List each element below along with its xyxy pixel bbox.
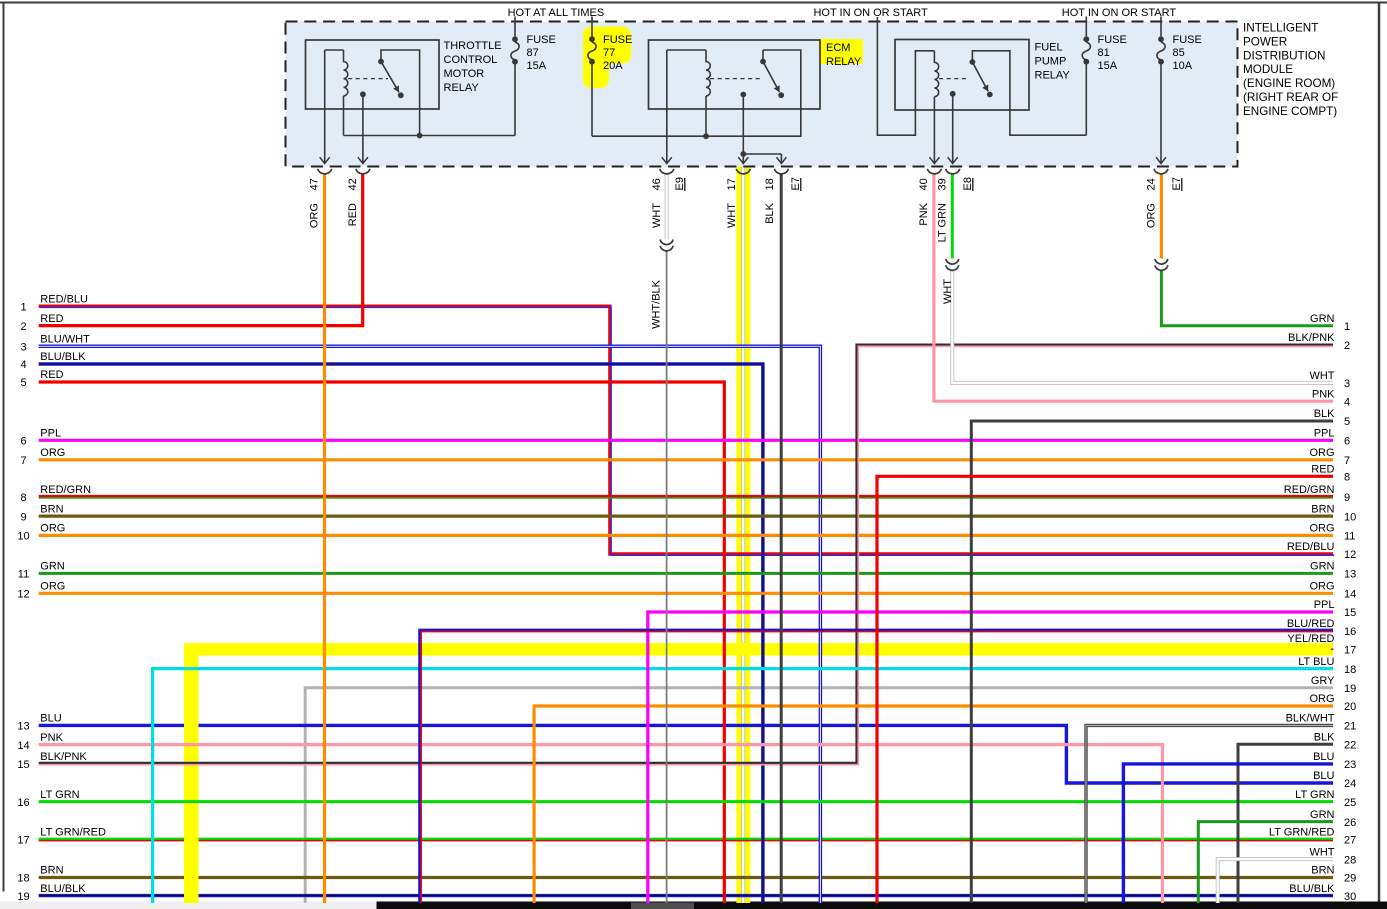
svg-text:E7: E7: [1171, 177, 1183, 190]
svg-text:2: 2: [1344, 340, 1350, 352]
svg-text:RED: RED: [1311, 464, 1334, 476]
svg-text:RELAY: RELAY: [1035, 69, 1071, 81]
svg-text:ECM: ECM: [826, 42, 850, 54]
svg-text:47: 47: [309, 178, 321, 190]
svg-text:PPL: PPL: [1314, 428, 1335, 440]
svg-text:WHT/BLK: WHT/BLK: [651, 279, 663, 329]
svg-text:BLU/BLK: BLU/BLK: [40, 883, 86, 895]
svg-text:ORG: ORG: [309, 203, 321, 228]
svg-text:GRN: GRN: [1310, 313, 1335, 325]
svg-text:10: 10: [17, 531, 29, 543]
svg-text:BRN: BRN: [1311, 503, 1334, 515]
svg-text:BLU/WHT: BLU/WHT: [40, 334, 90, 346]
svg-text:1: 1: [1344, 321, 1350, 333]
svg-text:PPL: PPL: [1314, 599, 1335, 611]
svg-text:46: 46: [651, 178, 663, 190]
svg-text:17: 17: [17, 835, 29, 847]
svg-text:15A: 15A: [1098, 60, 1118, 72]
svg-text:FUSE: FUSE: [1173, 34, 1202, 46]
svg-text:WHT: WHT: [1309, 846, 1334, 858]
svg-text:16: 16: [17, 797, 29, 809]
svg-text:GRN: GRN: [1310, 809, 1335, 821]
svg-text:10: 10: [1344, 511, 1356, 523]
svg-text:87: 87: [527, 47, 539, 59]
svg-text:18: 18: [1344, 664, 1356, 676]
svg-text:LT GRN: LT GRN: [1295, 789, 1334, 801]
svg-text:FUSE: FUSE: [527, 34, 556, 46]
svg-text:PPL: PPL: [40, 428, 61, 440]
svg-text:MODULE: MODULE: [1243, 63, 1293, 76]
svg-text:WHT: WHT: [651, 203, 663, 228]
svg-text:6: 6: [1344, 436, 1350, 448]
svg-text:ORG: ORG: [40, 523, 65, 535]
svg-text:20: 20: [1344, 701, 1356, 713]
svg-text:BLK: BLK: [764, 202, 776, 223]
svg-text:4: 4: [1344, 396, 1350, 408]
svg-text:15A: 15A: [527, 60, 547, 72]
svg-text:RELAY: RELAY: [444, 82, 480, 94]
svg-text:WHT: WHT: [1309, 370, 1334, 382]
svg-text:21: 21: [1344, 721, 1356, 733]
svg-text:1: 1: [20, 301, 26, 313]
svg-text:39: 39: [937, 178, 949, 190]
svg-text:RED/GRN: RED/GRN: [40, 484, 91, 496]
svg-text:LT GRN: LT GRN: [937, 203, 949, 242]
svg-text:BLK/PNK: BLK/PNK: [1288, 332, 1335, 344]
svg-text:13: 13: [17, 721, 29, 733]
svg-text:BRN: BRN: [40, 865, 63, 877]
svg-text:PNK: PNK: [918, 202, 930, 225]
svg-text:WHT: WHT: [726, 203, 738, 228]
svg-text:ORG: ORG: [1309, 581, 1334, 593]
svg-text:LT GRN/RED: LT GRN/RED: [1269, 827, 1335, 839]
svg-text:BRN: BRN: [40, 503, 63, 515]
svg-text:LT BLU: LT BLU: [1298, 656, 1334, 668]
svg-text:11: 11: [1344, 531, 1355, 543]
svg-text:14: 14: [17, 740, 29, 752]
svg-text:(ENGINE ROOM): (ENGINE ROOM): [1243, 77, 1335, 90]
svg-text:12: 12: [1344, 549, 1356, 561]
svg-text:16: 16: [1344, 626, 1356, 638]
svg-text:DISTRIBUTION: DISTRIBUTION: [1243, 49, 1325, 62]
svg-text:7: 7: [1344, 455, 1350, 467]
svg-text:INTELLIGENT: INTELLIGENT: [1243, 22, 1318, 35]
svg-text:17: 17: [726, 178, 738, 190]
svg-text:BLU/BLK: BLU/BLK: [40, 351, 86, 363]
svg-text:3: 3: [20, 342, 26, 354]
svg-text:40: 40: [918, 178, 930, 190]
svg-text:24: 24: [1344, 778, 1356, 790]
svg-text:77: 77: [603, 47, 615, 59]
svg-text:ORG: ORG: [1309, 447, 1334, 459]
svg-text:18: 18: [17, 873, 29, 885]
svg-text:HOT IN ON OR START: HOT IN ON OR START: [1062, 7, 1177, 19]
svg-text:RED/GRN: RED/GRN: [1284, 484, 1335, 496]
svg-text:ORG: ORG: [40, 581, 65, 593]
svg-text:ORG: ORG: [40, 447, 65, 459]
svg-text:17: 17: [1344, 645, 1356, 657]
svg-text:RED/BLU: RED/BLU: [40, 293, 88, 305]
svg-text:YEL/RED: YEL/RED: [1287, 633, 1334, 645]
svg-text:RELAY: RELAY: [826, 56, 862, 68]
svg-text:CONTROL: CONTROL: [444, 54, 498, 66]
svg-text:POWER: POWER: [1243, 35, 1287, 48]
svg-text:42: 42: [347, 178, 359, 190]
svg-text:FUEL: FUEL: [1035, 41, 1063, 53]
svg-text:5: 5: [1344, 416, 1350, 428]
svg-text:28: 28: [1344, 854, 1356, 866]
svg-text:HOT IN ON OR START: HOT IN ON OR START: [813, 7, 928, 19]
svg-text:MOTOR: MOTOR: [444, 68, 485, 80]
svg-text:30: 30: [1344, 891, 1356, 903]
svg-text:9: 9: [1344, 492, 1350, 504]
svg-text:RED: RED: [347, 203, 359, 226]
svg-text:29: 29: [1344, 873, 1356, 885]
svg-text:BLK/PNK: BLK/PNK: [40, 751, 87, 763]
svg-text:BLK: BLK: [1314, 731, 1335, 743]
svg-text:RED: RED: [40, 313, 63, 325]
svg-text:BLU/RED: BLU/RED: [1287, 618, 1335, 630]
svg-text:WHT: WHT: [942, 279, 954, 304]
svg-text:BRN: BRN: [1311, 865, 1334, 877]
svg-text:8: 8: [1344, 472, 1350, 484]
svg-text:BLU: BLU: [1313, 770, 1334, 782]
svg-text:GRN: GRN: [1310, 561, 1335, 573]
svg-text:85: 85: [1173, 47, 1185, 59]
svg-text:PNK: PNK: [40, 732, 63, 744]
svg-text:BLK: BLK: [1314, 408, 1335, 420]
svg-text:PUMP: PUMP: [1035, 55, 1067, 67]
svg-text:ORG: ORG: [1309, 693, 1334, 705]
svg-text:ORG: ORG: [1146, 203, 1158, 228]
svg-text:18: 18: [764, 178, 776, 190]
svg-text:26: 26: [1344, 817, 1356, 829]
svg-text:PNK: PNK: [1312, 388, 1335, 400]
svg-text:3: 3: [1344, 378, 1350, 390]
svg-text:14: 14: [1344, 589, 1356, 601]
svg-text:(RIGHT REAR OF: (RIGHT REAR OF: [1243, 91, 1338, 104]
svg-text:FUSE: FUSE: [1098, 34, 1127, 46]
svg-text:81: 81: [1098, 47, 1110, 59]
svg-text:BLU/BLK: BLU/BLK: [1289, 883, 1335, 895]
svg-text:ORG: ORG: [1309, 523, 1334, 535]
svg-text:ENGINE COMPT): ENGINE COMPT): [1243, 105, 1337, 118]
svg-text:FUSE: FUSE: [603, 34, 632, 46]
svg-text:15: 15: [1344, 607, 1356, 619]
svg-text:BLU: BLU: [40, 713, 61, 725]
svg-text:2: 2: [20, 321, 26, 333]
svg-text:6: 6: [20, 436, 26, 448]
svg-text:THROTTLE: THROTTLE: [444, 40, 502, 52]
svg-text:9: 9: [20, 511, 26, 523]
svg-text:8: 8: [20, 492, 26, 504]
svg-text:11: 11: [18, 569, 29, 581]
svg-text:20A: 20A: [603, 60, 623, 72]
svg-text:19: 19: [1344, 683, 1356, 695]
svg-text:HOT AT ALL TIMES: HOT AT ALL TIMES: [508, 7, 605, 19]
svg-text:BLK/WHT: BLK/WHT: [1286, 713, 1335, 725]
svg-text:BLU: BLU: [1313, 751, 1334, 763]
svg-text:LT GRN: LT GRN: [40, 789, 79, 801]
svg-text:15: 15: [17, 759, 29, 771]
svg-text:19: 19: [17, 891, 29, 903]
svg-text:22: 22: [1344, 739, 1356, 751]
svg-text:27: 27: [1344, 835, 1356, 847]
svg-text:LT GRN/RED: LT GRN/RED: [40, 827, 106, 839]
svg-text:13: 13: [1344, 569, 1356, 581]
svg-text:RED: RED: [40, 369, 63, 381]
svg-text:7: 7: [20, 455, 26, 467]
svg-text:RED/BLU: RED/BLU: [1287, 541, 1335, 553]
svg-text:GRY: GRY: [1311, 675, 1335, 687]
svg-text:5: 5: [20, 377, 26, 389]
svg-text:23: 23: [1344, 759, 1356, 771]
svg-text:12: 12: [17, 589, 29, 601]
svg-text:25: 25: [1344, 797, 1356, 809]
svg-text:4: 4: [20, 359, 26, 371]
svg-text:10A: 10A: [1173, 60, 1193, 72]
svg-text:24: 24: [1146, 178, 1158, 190]
svg-text:GRN: GRN: [40, 561, 65, 573]
